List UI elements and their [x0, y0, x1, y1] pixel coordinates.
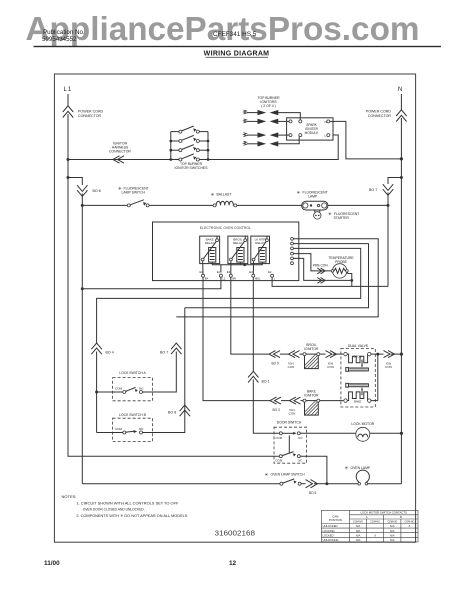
wire switch bank left bus [170, 132, 172, 160]
wire BO4 to lock switches [96, 352, 98, 433]
fluorescent lamp switch S2 [82, 186, 149, 207]
wire lock switch B NO riser [153, 308, 185, 433]
fluorescent starter [314, 210, 360, 220]
door switch pole2 [276, 452, 303, 463]
svg-text:BO 1: BO 1 [262, 380, 270, 384]
svg-text:DUAL VALVE: DUAL VALVE [348, 344, 369, 348]
svg-text:N/A: N/A [390, 533, 395, 537]
wire N main vertical [400, 118, 402, 484]
svg-text:STARTER: STARTER [334, 216, 350, 220]
node junction lock switch A tap [95, 391, 98, 394]
fluorescent lamp [297, 190, 328, 210]
svg-text:BO 8: BO 8 [168, 411, 176, 415]
EOC terminal E4 [249, 261, 261, 281]
connector ign con bake [290, 397, 304, 404]
svg-text:N/A: N/A [390, 529, 395, 533]
wire relay common inside EOC [212, 262, 262, 272]
node junction L1/BO6 branch [67, 176, 70, 179]
svg-text:CON: CON [288, 365, 295, 369]
connector BO 4 [91, 343, 101, 354]
svg-text:N/A: N/A [356, 524, 361, 528]
bake ignitor E2 [303, 390, 320, 416]
svg-text:BO 4: BO 4 [106, 351, 114, 355]
svg-text:RELAY: RELAY [205, 241, 215, 245]
svg-text:CON: CON [385, 365, 392, 369]
svg-text:IGNITOR: IGNITOR [304, 347, 319, 351]
svg-text:MODULE: MODULE [305, 131, 319, 135]
svg-text:N/A: N/A [390, 538, 395, 542]
svg-text:2. COMPONENTS WITH ✳ DO N: 2. COMPONENTS WITH ✳ DO NOT APPEAR ON AL… [76, 513, 188, 518]
wire L1 main vertical [67, 114, 69, 456]
svg-text:ELECTRONIC OVEN CONTROL: ELECTRONIC OVEN CONTROL [200, 226, 251, 230]
wire bus C lock switch A [176, 239, 378, 317]
svg-text:E1: E1 [217, 270, 221, 274]
svg-text:BO 7: BO 7 [160, 351, 168, 355]
connector BO 1 [248, 371, 258, 382]
svg-text:BO 3: BO 3 [273, 408, 280, 412]
wire top bus to spark module L drop [208, 135, 338, 160]
svg-text:BROIL: BROIL [353, 355, 362, 359]
connector ign con broil right [320, 351, 344, 358]
switch burner row4 [171, 154, 208, 161]
EOC terminal E2 [268, 270, 276, 280]
wire lamp feed from BO6 [82, 483, 280, 485]
svg-text:E2: E2 [268, 270, 272, 274]
svg-text:LOCK MOTOR: LOCK MOTOR [351, 422, 374, 426]
switch burner row1 [171, 126, 208, 133]
svg-text:NC: NC [298, 459, 302, 463]
wire probe line1 [293, 254, 331, 271]
border frame [54, 74, 415, 542]
svg-text:B: B [400, 515, 402, 519]
svg-text:N: N [325, 120, 327, 124]
node junction lamp switch/door NC [325, 482, 328, 485]
connector BO 7 left [171, 343, 181, 354]
svg-text:316002168: 316002168 [215, 529, 256, 538]
wire N drop from label [400, 94, 402, 110]
svg-text:BR: BR [232, 277, 236, 281]
wire E9 to bake ignitor row [203, 277, 271, 400]
svg-text:NO: NO [139, 427, 144, 431]
switch burner row3 [171, 145, 208, 152]
connector BO 9 [269, 351, 289, 358]
spark gap ignitor row4 [244, 137, 300, 146]
wire switch bank right bus [207, 132, 209, 160]
node junction BO6/bus [81, 287, 84, 290]
svg-text:COM-NO: COM-NO [353, 520, 363, 523]
power cord connector N [396, 110, 406, 122]
svg-text:X: X [409, 524, 411, 528]
svg-text:POWER CORD: POWER CORD [366, 110, 392, 114]
wire L1 bottom to door com [68, 455, 279, 457]
svg-text:BA: BA [205, 277, 209, 281]
svg-text:COM-NC: COM-NC [370, 520, 380, 523]
wire bus neutral return lower [272, 277, 388, 286]
svg-text:POWER CORD: POWER CORD [78, 110, 104, 114]
node junction valve/N line [400, 353, 403, 356]
wire E4 to door switch [253, 277, 279, 433]
svg-text:LOCK MOTOR SWITCH CONTACTS: LOCK MOTOR SWITCH CONTACTS [360, 511, 407, 515]
svg-text:N: N [398, 87, 402, 93]
svg-text:✳: ✳ [297, 190, 301, 195]
svg-text:NO: NO [139, 387, 144, 391]
svg-text:COM: COM [115, 387, 123, 391]
node junction relay common [243, 263, 246, 266]
svg-text:1. CIRCUIT SHOWN WITH ALL: 1. CIRCUIT SHOWN WITH ALL CONTROLS SET T… [76, 500, 179, 505]
lock switch A [97, 371, 153, 401]
wire probe return [347, 272, 352, 286]
node junction BO6/lamp switch [81, 204, 84, 207]
lock switch B [97, 413, 153, 441]
svg-text:RELAY: RELAY [233, 241, 243, 245]
wire top bus L1 to switch bank [68, 159, 171, 161]
connector probe con 1 [317, 268, 325, 274]
notes [62, 494, 189, 518]
wire N branch to BO7 [388, 178, 401, 185]
svg-text:BALLAST: BALLAST [217, 193, 232, 197]
svg-text:IGNITOR SWITCHES: IGNITOR SWITCHES [175, 166, 209, 170]
svg-text:E3: E3 [227, 270, 231, 274]
wire E3 to broil ignitor row [231, 277, 270, 354]
svg-text:( 2 OF 4 ): ( 2 OF 4 ) [261, 104, 276, 108]
connector BO 8 [180, 405, 190, 416]
broil valve coil [344, 352, 371, 371]
svg-text:LOCK SWITCH A: LOCK SWITCH A [119, 371, 146, 375]
node junction L1/top bus [67, 158, 70, 161]
connector ignitor harness [113, 156, 124, 163]
svg-text:LOCKING: LOCKING [323, 529, 335, 533]
svg-text:WIRING DIAGRAM: WIRING DIAGRAM [204, 51, 270, 58]
svg-text:UNLOCKED: UNLOCKED [323, 524, 338, 528]
svg-text:BO 5: BO 5 [309, 491, 316, 495]
top burner ignitor switches [169, 132, 209, 161]
connector BO 5 [301, 480, 327, 488]
svg-text:E4: E4 [249, 270, 253, 274]
svg-text:IGNITOR: IGNITOR [304, 393, 319, 397]
svg-text:LAMP SWITCH: LAMP SWITCH [122, 191, 146, 195]
broil ignitor E1 [303, 343, 320, 369]
lock motor switch contacts table [321, 510, 418, 542]
spark gap ignitor row3 [244, 133, 290, 138]
wire fluorescent lamp to BO7 line [328, 204, 388, 206]
connector BO 7 right [383, 184, 393, 195]
node junction N/BO7 branch [400, 176, 403, 179]
svg-text:L1: L1 [64, 87, 73, 93]
wire bus L1 side lower [82, 277, 221, 289]
svg-text:OVEN LAMP: OVEN LAMP [351, 466, 372, 470]
EOC terminal E3 [227, 261, 236, 281]
svg-text:BO 9: BO 9 [272, 362, 279, 366]
EOC right terminal block [291, 237, 294, 264]
wire BO6 vertical feed [81, 194, 83, 484]
publication number text [42, 29, 85, 43]
svg-text:MDL: MDL [255, 277, 261, 281]
electronic oven control U2 [153, 222, 299, 281]
svg-text:CON: CON [327, 365, 334, 369]
door switch pole1 [276, 432, 304, 440]
wire BO7 to lock switch A [153, 352, 177, 393]
wire to oven lamp [327, 483, 358, 485]
connector ign con broil left [289, 351, 304, 358]
svg-text:LAMP: LAMP [308, 195, 318, 199]
relay K1 bake [200, 236, 220, 264]
spark igniter module U1 [287, 118, 333, 140]
connector BO 3 [270, 397, 290, 404]
svg-text:UNLOCKING: UNLOCKING [323, 538, 339, 542]
wire door NC to lamp row [300, 456, 327, 484]
wire bus B lock switch B [185, 244, 369, 308]
svg-text:DOOR SWITCH: DOOR SWITCH [277, 421, 302, 425]
wire probe line2 [293, 258, 351, 280]
svg-text:BO 7: BO 7 [369, 188, 377, 192]
svg-text:CON: CON [289, 412, 296, 416]
svg-text:N/A: N/A [356, 533, 361, 537]
svg-text:PRB CON: PRB CON [313, 264, 328, 268]
node junction motor/N line [400, 432, 403, 435]
bake valve coil [344, 383, 371, 403]
wire L1 drop from label [67, 94, 69, 106]
svg-text:COM-NO: COM-NO [387, 520, 397, 523]
wire bake ignitor to valve [320, 400, 344, 402]
node junction valve output [376, 353, 379, 356]
svg-text:POSITION: POSITION [329, 518, 342, 522]
spark gap ignitor row1 [244, 110, 301, 120]
connector BO 6 [77, 185, 87, 196]
dual valve [341, 344, 375, 407]
svg-text:11/00: 11/00 [44, 560, 60, 567]
svg-text:COM: COM [115, 427, 123, 431]
relay K3 lock motor [251, 236, 270, 264]
svg-text:CFEF341 HS.5: CFEF341 HS.5 [213, 31, 257, 38]
svg-text:A: A [366, 515, 368, 519]
ballast [211, 192, 237, 207]
node junction probe/line2 [350, 279, 353, 282]
svg-text:OVEN LAMP SWITCH: OVEN LAMP SWITCH [271, 473, 306, 477]
wire ballast to fluorescent lamp [237, 204, 302, 206]
lock motor M1 [351, 422, 374, 441]
svg-text:BO 6: BO 6 [93, 189, 101, 193]
svg-text:COM-NC: COM-NC [404, 520, 414, 523]
wire L1 branch to BO6 [68, 178, 82, 186]
svg-text:BAKE: BAKE [354, 399, 362, 403]
wire oven lamp to N [368, 483, 402, 485]
svg-text:✳: ✳ [265, 472, 269, 477]
door switch link [288, 435, 290, 452]
wire door NO to lock motor [300, 432, 356, 434]
wire module N to N line [330, 121, 402, 158]
wire BO7 lamp return vertical [387, 193, 389, 287]
door switch [274, 421, 307, 464]
svg-text:N/A: N/A [356, 529, 361, 533]
power cord connector L1 [63, 106, 73, 118]
EOC terminal E1 [217, 270, 226, 280]
svg-text:X: X [374, 533, 376, 537]
oven lamp DS1 [345, 466, 372, 485]
svg-text:N/A: N/A [356, 538, 361, 542]
svg-text:N/A: N/A [390, 524, 395, 528]
svg-text:PROBE: PROBE [335, 260, 348, 264]
svg-text:CONNECTOR: CONNECTOR [109, 150, 131, 154]
header rule [34, 46, 442, 47]
svg-text:12: 12 [229, 560, 237, 567]
wire bus A lock switches [97, 248, 361, 343]
WIRING DIAGRAM title [204, 51, 270, 58]
wire lamp switch to ballast [149, 204, 213, 206]
temperature probe RT1 [331, 264, 348, 278]
connector ign con valve out [378, 351, 402, 358]
svg-text:OVEN DOOR CLOSED AND UNLOC: OVEN DOOR CLOSED AND UNLOCKED. [83, 507, 145, 512]
wire valve outputs tie [371, 354, 378, 401]
svg-text:Publication No.: Publication No. [43, 29, 85, 36]
EOC terminal E9 [200, 261, 209, 281]
svg-text:RELAY: RELAY [255, 241, 265, 245]
connector probe con 2 [317, 278, 325, 284]
node junction lamp return [387, 204, 390, 207]
svg-text:✳: ✳ [328, 212, 332, 217]
wire lock motor to N [370, 432, 402, 434]
svg-text:COM: COM [276, 459, 283, 463]
spark gap ignitor row2 [244, 119, 290, 124]
svg-text:LOCKED: LOCKED [323, 533, 334, 537]
svg-text:COM: COM [276, 436, 283, 440]
svg-text:CONNECTOR: CONNECTOR [78, 114, 101, 118]
oven lamp switch [265, 472, 306, 485]
relay K2 broil [228, 236, 248, 264]
svg-text:NOTES:: NOTES: [62, 494, 77, 499]
svg-text:CONNECTOR: CONNECTOR [368, 114, 391, 118]
svg-text:5995434552: 5995434552 [42, 36, 77, 43]
svg-text:✳: ✳ [345, 466, 349, 471]
switch burner row2 [171, 135, 208, 142]
svg-text:✳: ✳ [211, 192, 215, 197]
svg-text:LOCK SWITCH B: LOCK SWITCH B [119, 413, 146, 417]
svg-text:CAM: CAM [332, 515, 339, 519]
node junction N line / module [400, 157, 403, 160]
